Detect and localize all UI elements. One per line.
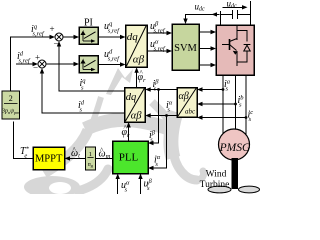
- wire PI1 to dq1 (uq): [98, 36, 123, 38]
- block PI2: [79, 56, 98, 73]
- block PI1: [79, 27, 98, 44]
- wire iq-ref rail: [11, 37, 53, 91]
- wind turbine shaft: [232, 158, 239, 189]
- wire dq2 iq feedback: [59, 44, 125, 92]
- junction phase b tap: [234, 103, 237, 106]
- arrowhead gate1 into converter: [211, 30, 217, 34]
- wire ia tap: [200, 89, 224, 91]
- block converter: [216, 25, 254, 75]
- wire ib tap: [200, 103, 236, 105]
- wire phase c vertical: [245, 75, 247, 135]
- arrowhead ibeta into dq2: [145, 87, 151, 91]
- svg-text:PLL: PLL: [119, 152, 139, 164]
- wire gear to MPPT: [67, 157, 85, 159]
- wire id-ref: [16, 63, 36, 65]
- arrowhead into sum S2 bottom: [40, 68, 44, 74]
- svg-text:dq: dq: [127, 31, 139, 43]
- arrowhead phi into dq2 bottom: [126, 122, 130, 128]
- svg-text:αβ: αβ: [133, 54, 145, 66]
- block dq2 transform: [125, 88, 146, 123]
- dc capacitor plates: [233, 10, 238, 19]
- junction ibeta tap: [157, 88, 160, 91]
- arrowhead ibeta into PLL: [148, 141, 154, 145]
- svg-text:αβ: αβ: [131, 111, 143, 122]
- junction phase c tap: [245, 116, 248, 119]
- wire PI2 to dq1 (ud): [98, 64, 123, 66]
- svg-text:1: 1: [89, 151, 92, 158]
- arrowhead into sum S2 left: [33, 62, 39, 66]
- arrowhead gate2 into converter: [211, 46, 217, 50]
- svg-text:MPPT: MPPT: [35, 154, 63, 165]
- wire dq2 id feedback: [42, 71, 125, 114]
- junction phase a tap: [222, 88, 225, 91]
- wire udc tap: [186, 14, 220, 21]
- block SVM: [172, 24, 199, 70]
- watermark strokes: [44, 97, 204, 191]
- wire dc cap left: [221, 13, 233, 15]
- svg-text:+: +: [50, 24, 55, 34]
- svg-text:3pnψpm: 3pnψpm: [1, 109, 20, 116]
- wire u beta s bottom: [140, 176, 142, 194]
- arrowheads: [33, 5, 248, 179]
- arrowhead ubeta into SVM: [167, 31, 173, 35]
- svg-text:ng: ng: [88, 162, 94, 168]
- arrowhead ib into abc block: [197, 102, 203, 106]
- svg-text:−: −: [33, 63, 38, 73]
- block abc transform: [177, 88, 197, 118]
- wire dc cap right: [238, 13, 251, 15]
- arrowhead into sum S1 bottom: [57, 41, 61, 47]
- wire sum1 to PI1: [63, 36, 77, 38]
- arrowhead into PI2: [74, 62, 80, 66]
- arrowhead omega into MPPT: [65, 156, 71, 160]
- wire phase a vertical: [222, 75, 224, 134]
- svg-text:−: −: [54, 39, 59, 49]
- arrowhead ialpha into dq2: [145, 113, 151, 117]
- arrowhead uq into dq1: [120, 35, 126, 39]
- wire abc to dq2 (i beta): [148, 89, 177, 91]
- svg-text:dq: dq: [126, 92, 137, 103]
- wire dc rail right: [250, 1, 252, 25]
- block PLL: [113, 141, 149, 174]
- wire phase b vertical: [235, 75, 237, 129]
- block dq1 transform: [126, 25, 148, 67]
- svg-text:PMSG: PMSG: [219, 142, 251, 154]
- wire SVM to converter gate 1: [199, 31, 214, 33]
- junction ialpha tap: [165, 114, 168, 117]
- udc annotation arrow: [223, 6, 247, 8]
- arrowhead into sum S1 left: [50, 35, 56, 39]
- svg-text:PI: PI: [84, 17, 93, 28]
- svg-text:SVM: SVM: [174, 43, 197, 54]
- wire dq1 to SVM (u beta): [147, 32, 170, 34]
- wire phi PLL to dq2: [128, 125, 130, 142]
- arrowhead phi into dq1 bottom: [134, 67, 138, 73]
- wire MPPT to gain block: [14, 122, 34, 159]
- svg-text:+: +: [35, 53, 40, 63]
- svg-text:2: 2: [9, 94, 13, 103]
- wire i alpha drop to PLL: [151, 116, 167, 169]
- arrowhead ubeta into PLL bottom: [138, 174, 142, 180]
- arrowhead ud into dq1: [120, 62, 126, 66]
- sum junction S1: [55, 33, 63, 41]
- arrowhead udc tap: [212, 12, 218, 16]
- block MPPT: [33, 147, 65, 170]
- wire sum2 to PI2: [46, 63, 77, 65]
- svg-text:Turbine: Turbine: [200, 180, 230, 190]
- wire SVM to converter gate 3: [199, 64, 214, 66]
- wire SVM to converter gate 2: [199, 48, 214, 50]
- wire u alpha s bottom: [117, 176, 119, 194]
- wire ic tap: [200, 117, 247, 119]
- arrowhead ualpha into PLL bottom: [116, 174, 120, 180]
- wire dq1 to SVM (u alpha): [147, 50, 170, 52]
- arrowhead udc annotation: [242, 5, 248, 9]
- PMSG machine: [219, 129, 252, 160]
- wire dc rail left: [220, 11, 222, 25]
- arrowhead ic into abc block: [197, 115, 203, 119]
- arrowhead gate3 into converter: [211, 63, 217, 67]
- block gear 1/ng: [85, 147, 95, 170]
- wire abc to dq2 (i alpha): [148, 115, 177, 117]
- wire i beta drop to PLL: [151, 90, 159, 144]
- wind turbine blades: [208, 186, 260, 193]
- svg-text:αβ: αβ: [179, 91, 189, 102]
- svg-text:abc: abc: [185, 108, 196, 116]
- arrowhead ialpha into PLL: [148, 166, 154, 170]
- arrowhead udc into SVM top: [183, 19, 187, 25]
- junction dots: [157, 88, 247, 119]
- wire phi to dq1: [136, 70, 138, 88]
- arrowhead ualpha into SVM: [167, 49, 173, 53]
- block gain 2/(3 p psi): [1, 91, 20, 119]
- arrowhead into PI1: [74, 35, 80, 39]
- arrowhead ia into abc block: [197, 87, 203, 91]
- sum junction S2: [38, 60, 46, 68]
- wire PLL to gear: [96, 157, 113, 159]
- svg-text:Wind: Wind: [206, 170, 227, 180]
